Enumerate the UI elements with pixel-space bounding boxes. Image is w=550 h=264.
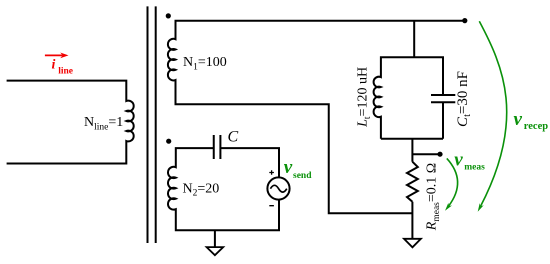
svg-text:meas: meas [464,162,485,172]
svg-text:C: C [228,128,239,145]
svg-text:i: i [52,58,56,73]
svg-text:line: line [58,67,73,77]
svg-text:Rmeas=0.1 Ω: Rmeas=0.1 Ω [425,163,442,231]
svg-text:N2=20: N2=20 [183,181,220,198]
svg-text:Ct=30 nF: Ct=30 nF [455,71,473,127]
svg-text:N1=100: N1=100 [183,55,227,72]
svg-text:Lt=120 uH: Lt=120 uH [356,67,373,128]
svg-text:v: v [454,150,463,171]
svg-text:Nline=1: Nline=1 [84,115,123,132]
svg-text:send: send [293,171,312,181]
svg-text:v: v [514,109,523,130]
svg-text:v: v [284,157,293,178]
svg-text:recep: recep [524,121,548,132]
